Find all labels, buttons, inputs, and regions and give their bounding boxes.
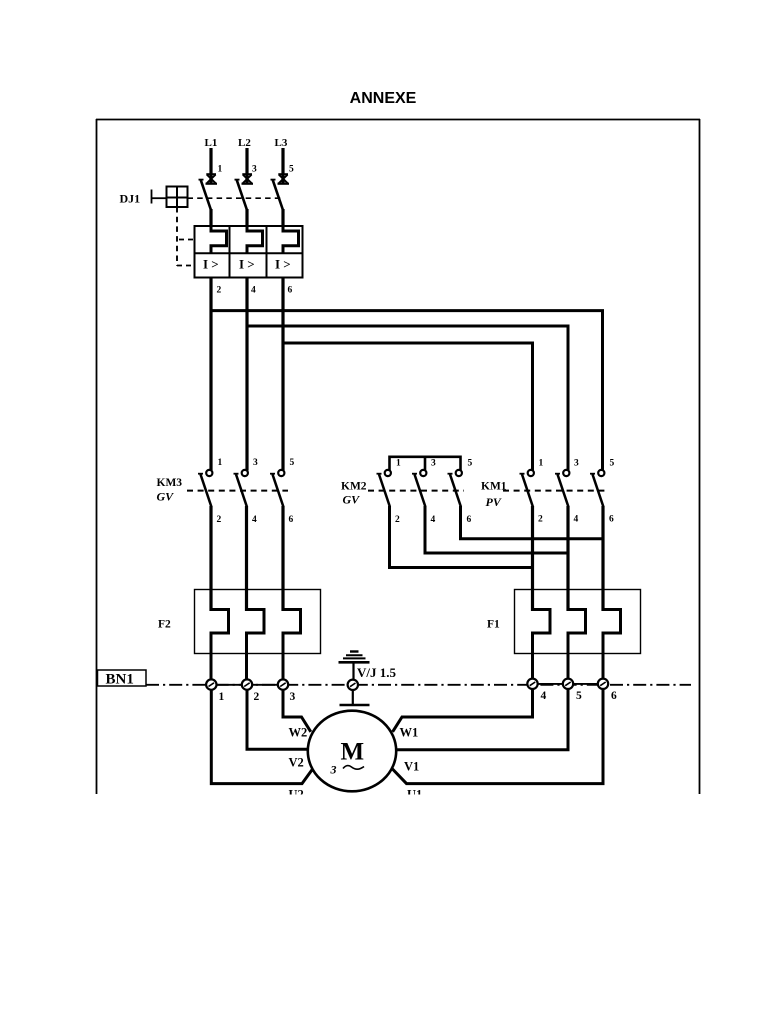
KM2 contact pole 2 [412, 470, 426, 507]
svg-text:4: 4 [574, 515, 579, 525]
breaker terminal X pole 2 [242, 174, 254, 184]
wire L3 lead [281, 148, 284, 184]
wire KM1-4 to F1 [566, 506, 569, 611]
KM2 pin 5 [468, 459, 473, 469]
wire KM3-6 to F2 [281, 506, 284, 611]
breaker thermal element pole 2 [247, 226, 263, 253]
label L2 [238, 137, 251, 149]
svg-text:4: 4 [252, 515, 257, 525]
svg-text:5: 5 [468, 459, 473, 469]
KM1 linkage dashed [503, 490, 608, 492]
wire phase B vertical breaker to KM3 [245, 278, 248, 471]
pin 4 label [541, 690, 547, 702]
label W2 [289, 726, 308, 740]
KM1 contact pole 2 [555, 470, 569, 507]
label BN1 [106, 672, 134, 688]
F1 heater pole 1 [533, 610, 551, 680]
wire KM3-4 to F2 [245, 506, 248, 611]
ground symbol [339, 652, 370, 681]
breaker thermal element pole 1 [211, 226, 227, 253]
breaker magnetic I> pole 1 [203, 257, 219, 272]
motor 3~ [330, 763, 365, 777]
svg-text:F2: F2 [158, 619, 171, 631]
svg-text:V1: V1 [404, 760, 419, 774]
KM1 contact pole 3 [590, 470, 604, 507]
svg-text:W1: W1 [400, 726, 419, 740]
svg-text:I >: I > [239, 257, 255, 272]
pin 2 [217, 286, 222, 296]
wire KM3-2 to F2 [209, 506, 212, 611]
svg-text:6: 6 [609, 515, 614, 525]
label KM1 [481, 481, 507, 493]
KM2 contact pole 1 [377, 470, 391, 507]
F2 heater pole 2 [247, 610, 265, 681]
terminal 2 [242, 679, 252, 689]
breaker blade pole 3 [271, 180, 284, 227]
KM2 pin 1 [396, 459, 401, 469]
wire terminal 6 to motor U1 [392, 689, 603, 784]
pin 2 label [254, 691, 260, 703]
svg-text:2: 2 [395, 515, 400, 525]
KM1 contact pole 1 [520, 470, 534, 507]
breaker terminal X pole 1 [206, 174, 218, 184]
wire phase B branch to KM1 [247, 326, 568, 471]
wire terminal 2 to motor V2 [247, 690, 308, 749]
svg-text:2: 2 [254, 691, 260, 703]
title ANNEXE [350, 90, 417, 107]
DJ1 linkage dashed stub upper [179, 239, 195, 241]
pin 1 label [219, 691, 225, 703]
label L3 [275, 137, 288, 149]
KM1 pin 3 [574, 459, 579, 469]
label V2 [289, 756, 304, 770]
terminal 3 [278, 679, 288, 689]
svg-text:4: 4 [251, 286, 256, 296]
svg-text:1: 1 [539, 459, 544, 469]
KM1 pin 1 [539, 459, 544, 469]
svg-text:F1: F1 [487, 619, 500, 631]
KM1 pin 2 [538, 515, 543, 525]
svg-text:KM2: KM2 [341, 481, 367, 493]
svg-text:6: 6 [288, 286, 293, 296]
breaker magnetic I> pole 2 [239, 257, 255, 272]
svg-text:2: 2 [538, 515, 543, 525]
KM2 pin 6 [467, 515, 472, 525]
svg-text:M: M [341, 739, 365, 766]
KM2 star bridge bar [390, 457, 461, 471]
svg-text:3: 3 [252, 165, 257, 175]
wire terminal 3 to motor W2 [283, 690, 311, 732]
svg-text:W2: W2 [289, 726, 308, 740]
BN1 rail solid segment terminals 1-3 [211, 684, 283, 686]
wire terminal 4 to motor W1 [393, 689, 533, 732]
label U2 (cropped) [289, 788, 304, 802]
wire KM1-6 to F1 [601, 506, 604, 611]
F1 heater pole 2 [568, 610, 586, 680]
svg-text:5: 5 [289, 165, 294, 175]
terminal 5 [563, 679, 573, 689]
svg-text:3: 3 [330, 763, 337, 777]
svg-text:I >: I > [203, 257, 219, 272]
DJ1 linkage dashed vertical [176, 207, 178, 266]
BN1 rail solid segment terminals 4-6 [533, 683, 604, 685]
label F2 [158, 619, 171, 631]
svg-text:L1: L1 [205, 137, 218, 149]
relay F1 box [515, 590, 641, 654]
terminal earth [348, 680, 358, 690]
wire phase A vertical breaker to KM3 [209, 278, 212, 471]
svg-text:3: 3 [290, 691, 296, 703]
svg-text:GV: GV [157, 490, 175, 504]
KM3 pin 2 [217, 515, 222, 525]
svg-text:ANNEXE: ANNEXE [350, 90, 417, 107]
svg-text:V/J 1.5: V/J 1.5 [357, 665, 397, 680]
KM3 linkage dashed [187, 490, 288, 492]
wire KM2-6 to node U1 [461, 506, 604, 539]
svg-text:L2: L2 [238, 137, 251, 149]
label GV of KM3 [157, 490, 175, 504]
pin 3 [252, 165, 257, 175]
svg-text:4: 4 [541, 690, 547, 702]
svg-text:V2: V2 [289, 756, 304, 770]
label KM2 [341, 481, 367, 493]
KM2 linkage dashed [368, 490, 464, 492]
label V/J 1.5 [357, 665, 397, 680]
KM3 pin 6 [289, 515, 294, 525]
KM3 pin 4 [252, 515, 257, 525]
KM3 contact pole 2 [234, 470, 248, 507]
motor M circle [308, 711, 396, 792]
DJ1 linkage dashed stub lower [177, 265, 195, 267]
svg-text:5: 5 [610, 459, 615, 469]
KM3 contact pole 3 [270, 470, 284, 507]
pin 5 [289, 165, 294, 175]
svg-text:KM1: KM1 [481, 481, 507, 493]
svg-text:2: 2 [217, 515, 222, 525]
breaker magnetic I> pole 3 [275, 257, 291, 272]
label KM3 [157, 477, 183, 489]
svg-text:5: 5 [290, 458, 295, 468]
label GV of KM2 [343, 493, 361, 507]
F2 heater pole 3 [283, 610, 301, 681]
breaker terminal X pole 3 [278, 174, 290, 184]
svg-text:6: 6 [289, 515, 294, 525]
label W1 [400, 726, 419, 740]
wire KM1-2 to F1 [531, 506, 534, 611]
svg-text:1: 1 [396, 459, 401, 469]
terminal 1 [206, 679, 216, 689]
wire phase C branch to KM1 [283, 343, 533, 471]
wire L2 lead [245, 148, 248, 184]
KM2 pin 4 [431, 515, 436, 525]
label V1 [404, 760, 419, 774]
BN1 rail dash-dot line [146, 684, 691, 686]
svg-text:PV: PV [486, 495, 502, 509]
DJ1 linkage dashed horizontal [188, 197, 285, 199]
svg-text:6: 6 [467, 515, 472, 525]
pin 6 label [611, 690, 617, 702]
wire KM2-4 to node W1 [425, 506, 568, 553]
wire terminal 1 to motor U2 [211, 690, 312, 784]
svg-text:1: 1 [218, 458, 223, 468]
wire DJ1 lead [152, 197, 167, 199]
svg-text:6: 6 [611, 690, 617, 702]
wire KM2-2 to node V1 [390, 506, 533, 568]
page crop mask [0, 795, 768, 1024]
breaker box [195, 226, 303, 278]
label U1 (cropped) [407, 788, 422, 802]
breaker blade pole 2 [235, 180, 248, 227]
svg-text:3: 3 [574, 459, 579, 469]
terminal 6 [598, 679, 608, 689]
svg-text:L3: L3 [275, 137, 288, 149]
KM2 pin 3 [431, 459, 436, 469]
svg-text:1: 1 [218, 165, 223, 175]
terminal strip BN1 box [98, 670, 147, 686]
KM3 contact pole 1 [198, 470, 212, 507]
pin 4 [251, 286, 256, 296]
wire terminal 5 to motor V1 [396, 689, 568, 750]
pin 1 [218, 165, 223, 175]
label PV of KM1 [486, 495, 502, 509]
border frame [96, 119, 700, 794]
label DJ1 [120, 192, 141, 206]
DJ1 operator box [167, 187, 188, 208]
KM3 pin 1 [218, 458, 223, 468]
pin 6 [288, 286, 293, 296]
KM1 pin 6 [609, 515, 614, 525]
wire phase C vertical breaker to KM3 [281, 278, 284, 471]
svg-text:1: 1 [219, 691, 225, 703]
DJ1 lead tick [151, 190, 153, 204]
KM2 pin 2 [395, 515, 400, 525]
wire phase A branch to KM1 [211, 311, 603, 471]
wire L1 lead [209, 148, 212, 184]
pin 5 label [576, 690, 582, 702]
breaker blade pole 1 [199, 180, 212, 227]
svg-text:3: 3 [431, 459, 436, 469]
svg-text:3: 3 [253, 458, 258, 468]
svg-text:DJ1: DJ1 [120, 192, 141, 206]
terminal 4 [527, 679, 537, 689]
label L1 [205, 137, 218, 149]
F2 heater pole 1 [211, 610, 229, 681]
breaker thermal element pole 3 [283, 226, 299, 253]
KM1 pin 4 [574, 515, 579, 525]
label F1 [487, 619, 500, 631]
svg-text:4: 4 [431, 515, 436, 525]
pin 3 label [290, 691, 296, 703]
motor letter M [341, 739, 365, 766]
KM1 pin 5 [610, 459, 615, 469]
svg-text:I >: I > [275, 257, 291, 272]
svg-text:2: 2 [217, 286, 222, 296]
svg-text:KM3: KM3 [157, 477, 183, 489]
F1 heater pole 3 [603, 610, 621, 680]
svg-text:GV: GV [343, 493, 361, 507]
svg-text:BN1: BN1 [106, 672, 134, 688]
relay F2 box [195, 590, 321, 654]
earth wire to motor frame [340, 690, 370, 705]
KM3 pin 5 [290, 458, 295, 468]
KM3 pin 3 [253, 458, 258, 468]
svg-text:5: 5 [576, 690, 582, 702]
KM2 contact pole 3 [448, 470, 462, 507]
